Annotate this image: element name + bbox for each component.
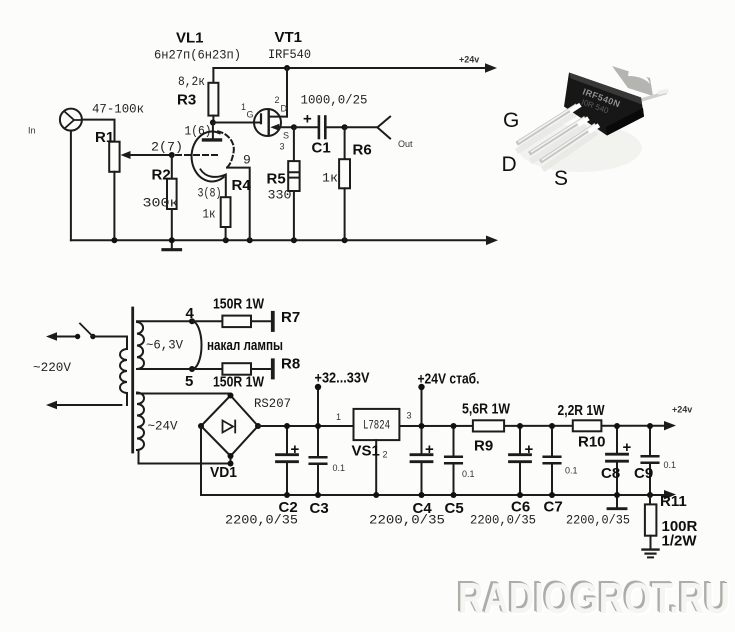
+24v top rail: [213, 63, 497, 73]
svg-text:150R 1W: 150R 1W: [213, 296, 265, 313]
triode grid dashed line: [176, 154, 220, 156]
bridge rectifier VD1 RS207: [201, 396, 258, 464]
wire 6.3V top to node 4: [137, 320, 192, 322]
node 1(6) dot: [210, 120, 216, 126]
ground below R2: [163, 240, 181, 249]
resistor R10: [573, 420, 602, 431]
svg-text:R10: R10: [578, 434, 606, 451]
wire C1 to output node: [326, 126, 344, 128]
svg-text:In: In: [28, 126, 36, 136]
transformer 24V winding: [137, 393, 144, 451]
resistor R4: [221, 197, 231, 240]
svg-text:0.1: 0.1: [565, 466, 578, 476]
svg-text:~24V: ~24V: [148, 419, 178, 434]
capacitor C9: [642, 426, 659, 495]
capacitor C7: [544, 426, 561, 495]
psu rail junction dots: [284, 423, 653, 429]
svg-text:VD1: VD1: [210, 464, 237, 481]
svg-text:5,6R 1W: 5,6R 1W: [462, 401, 511, 418]
svg-text:330: 330: [268, 188, 292, 203]
node 2(7) junction dot: [169, 152, 175, 158]
svg-text:1(6): 1(6): [185, 124, 212, 139]
capacitor C2: [277, 426, 298, 495]
output node dot: [342, 124, 348, 130]
svg-text:8,2к: 8,2к: [178, 74, 205, 89]
+24V stab terminal dot: [418, 384, 424, 390]
svg-text:300к: 300к: [143, 196, 179, 211]
earth ground below R11: [643, 550, 659, 558]
svg-text:R9: R9: [474, 438, 493, 455]
svg-text:+: +: [425, 441, 434, 458]
mosfet VT1: [254, 109, 294, 136]
chassis ground at C8: [608, 495, 626, 509]
svg-text:накал лампы: накал лампы: [207, 337, 283, 354]
terminal bar R7: [271, 313, 275, 330]
svg-text:47-100к: 47-100к: [92, 102, 144, 117]
triode anode plate: [204, 123, 221, 140]
mains arrow lower: [46, 401, 121, 410]
capacitor C3: [310, 426, 327, 495]
svg-text:0.1: 0.1: [462, 469, 475, 479]
pin 9 wire to bottom rail: [227, 168, 250, 241]
node 4 dot: [189, 318, 195, 324]
transistor photo IRF540: [518, 66, 667, 172]
svg-text:R6: R6: [353, 142, 372, 159]
svg-text:R7: R7: [281, 309, 300, 326]
svg-text:9: 9: [243, 153, 251, 168]
svg-text:6н27п(6н23п): 6н27п(6н23п): [154, 48, 241, 63]
svg-text:RS207: RS207: [254, 396, 291, 411]
svg-text:~6,3V: ~6,3V: [146, 338, 183, 353]
bottom rail of amplifier stage: [71, 236, 498, 246]
svg-text:D: D: [281, 104, 288, 114]
svg-text:2200,0/35: 2200,0/35: [369, 513, 445, 528]
svg-text:C5: C5: [445, 500, 464, 517]
svg-text:C3: C3: [310, 500, 329, 517]
svg-text:R3: R3: [177, 92, 196, 109]
svg-text:1000,0/25: 1000,0/25: [301, 93, 368, 108]
wire drain to +24v rail: [286, 68, 288, 117]
svg-text:IRF540: IRF540: [268, 47, 311, 62]
svg-text:D: D: [502, 153, 517, 176]
svg-text:S: S: [554, 167, 568, 190]
svg-text:G: G: [247, 110, 254, 120]
svg-text:S: S: [283, 131, 289, 141]
+32V terminal dot: [315, 384, 321, 390]
transformer 6.3V winding: [137, 322, 144, 369]
svg-text:+: +: [303, 111, 312, 128]
potentiometer R1: [109, 142, 119, 241]
wire 24V top to bridge: [137, 394, 231, 396]
wire source node to C1: [294, 126, 318, 128]
wire input to R1 top: [82, 120, 115, 142]
node 5 dot: [189, 366, 195, 372]
svg-text:+24v: +24v: [459, 55, 479, 65]
wire gate from node 1(6): [213, 122, 260, 124]
wire primary bottom: [126, 393, 128, 405]
psu negative wire from bridge: [200, 426, 202, 495]
input jack In: [60, 109, 82, 131]
svg-text:R5: R5: [267, 171, 286, 188]
node dot drain on top rail: [284, 65, 290, 71]
svg-text:3: 3: [280, 142, 285, 152]
wire switch to primary: [93, 337, 127, 350]
bridge corner dots: [198, 393, 261, 467]
svg-text:3(8): 3(8): [198, 186, 222, 201]
svg-text:2: 2: [383, 450, 388, 460]
capacitor C6: [510, 426, 531, 495]
mains switch: [75, 324, 96, 340]
svg-text:5: 5: [185, 373, 193, 390]
source node dot: [291, 124, 297, 130]
wire to out jack: [345, 126, 378, 128]
svg-text:2200,0/35: 2200,0/35: [225, 513, 298, 528]
svg-text:VT1: VT1: [275, 29, 303, 46]
svg-text:2200,0/35: 2200,0/35: [470, 513, 536, 528]
mains arrow upper: [46, 332, 78, 341]
svg-text:+: +: [291, 441, 300, 458]
psu bottom rail: [201, 490, 676, 499]
triode VL1 envelope: [192, 132, 224, 182]
resistor R3: [208, 68, 218, 123]
svg-text:1/2W: 1/2W: [662, 533, 698, 550]
svg-text:2: 2: [275, 95, 280, 105]
R1 wiper arrow wire to grid node: [121, 151, 172, 159]
triode dashed second-half arc: [218, 131, 234, 167]
svg-text:R1: R1: [95, 129, 114, 146]
svg-text:+32...33V: +32...33V: [315, 370, 370, 387]
wire input down to bottom rail: [70, 131, 72, 241]
capacitor C4: [411, 426, 432, 495]
transformer primary winding: [120, 349, 127, 393]
svg-text:~220V: ~220V: [33, 360, 71, 375]
svg-text:R8: R8: [281, 356, 300, 373]
resistor R11: [645, 495, 657, 549]
svg-text:1: 1: [336, 412, 341, 422]
svg-text:G: G: [503, 109, 519, 132]
svg-text:3: 3: [407, 411, 412, 421]
resistor R8: [192, 363, 271, 375]
junction dots on bottom rail: [111, 237, 347, 243]
svg-text:R4: R4: [232, 177, 252, 194]
out jack symbol: [377, 117, 390, 139]
svg-text:R2: R2: [152, 167, 171, 184]
regulator VS1 L7824: [354, 409, 400, 495]
svg-text:2,2R 1W: 2,2R 1W: [558, 402, 606, 419]
svg-text:1: 1: [241, 102, 246, 112]
terminal bar R8: [271, 360, 275, 377]
resistor R6: [339, 127, 350, 240]
resistor R9: [473, 420, 504, 431]
svg-text:L7824: L7824: [363, 418, 390, 433]
filament arc between 4 and 5: [192, 321, 202, 369]
+24V stab tap wire: [421, 389, 423, 426]
svg-text:R11: R11: [660, 493, 687, 510]
resistor R2: [167, 155, 177, 240]
resistor R5: [288, 127, 299, 240]
psu bottom rail junction dots: [284, 492, 653, 498]
wire 24V bottom to bridge: [139, 450, 231, 464]
svg-text:Out: Out: [398, 139, 413, 149]
svg-text:C9: C9: [634, 465, 653, 482]
psu main +rail: [258, 421, 676, 430]
triode cathode: [201, 170, 226, 198]
svg-text:VL1: VL1: [176, 30, 204, 47]
svg-text:0.1: 0.1: [664, 460, 677, 470]
svg-text:2200,0/35: 2200,0/35: [566, 513, 630, 528]
capacitor C8: [607, 426, 628, 495]
capacitor C5: [445, 426, 462, 495]
capacitor C1: [319, 117, 325, 139]
svg-text:+: +: [623, 439, 632, 456]
svg-text:1к: 1к: [203, 207, 216, 222]
svg-text:+24v: +24v: [672, 405, 692, 415]
svg-text:C7: C7: [544, 499, 563, 516]
wire 6.3V bottom to node 5: [137, 368, 192, 370]
svg-text:1к: 1к: [322, 171, 338, 186]
svg-text:4: 4: [186, 305, 195, 322]
svg-text:C8: C8: [601, 465, 620, 482]
resistor R7: [192, 316, 271, 328]
transformer core: [131, 308, 134, 452]
svg-text:C1: C1: [312, 140, 331, 157]
svg-text:+24V стаб.: +24V стаб.: [418, 371, 480, 388]
svg-text:VS1: VS1: [352, 443, 380, 460]
svg-text:150R 1W: 150R 1W: [213, 374, 265, 391]
svg-text:0.1: 0.1: [333, 463, 346, 473]
+32V tap wire: [317, 389, 319, 426]
svg-text:+: +: [525, 441, 534, 458]
svg-text:2(7): 2(7): [151, 140, 183, 155]
